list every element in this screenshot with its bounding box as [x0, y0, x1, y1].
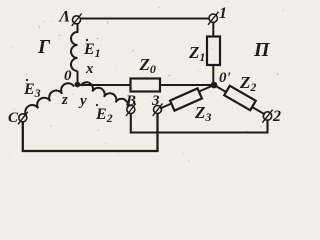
impedance Z1 [207, 37, 220, 66]
svg-text:Γ: Γ [37, 36, 51, 58]
impedance Z2 [224, 86, 255, 111]
svg-text:0': 0' [219, 70, 231, 86]
svg-text:B: B [125, 93, 136, 109]
neutral wire node0 to Z0 [81, 84, 131, 86]
winding E1 [71, 32, 77, 71]
wire 1 to Z1 [212, 22, 214, 37]
wire E1 to node 0 [77, 71, 79, 85]
svg-text:2: 2 [272, 108, 281, 125]
terminal C [18, 112, 28, 125]
svg-text:z: z [61, 92, 68, 108]
svg-text:Π: Π [253, 39, 271, 61]
impedance Z0 [131, 79, 161, 92]
terminal A [72, 14, 82, 27]
svg-text:C: C [8, 110, 19, 126]
wire Z1 to node 0' [212, 65, 214, 85]
wire A to 1 (top line) [81, 17, 210, 19]
terminal 1 [208, 12, 219, 25]
terminal B [126, 104, 136, 117]
terminal 2 [262, 110, 272, 123]
winding E2 (node 0 to B) [81, 80, 130, 108]
node 0' [211, 82, 218, 89]
impedance Z3 [170, 88, 202, 110]
wire B to 2 [131, 113, 268, 132]
paper speckle noise [9, 7, 284, 162]
neutral wire Z0 to node 0' [160, 84, 214, 86]
winding E3 (node 0 to C) [23, 81, 74, 116]
wire A to E1 [77, 24, 79, 33]
svg-text:Λ: Λ [59, 9, 71, 26]
node 0 [75, 82, 81, 88]
svg-text:x: x [85, 61, 94, 77]
svg-text:1: 1 [219, 5, 227, 22]
wire 0' to 2 [214, 85, 265, 115]
svg-text:y: y [78, 93, 87, 109]
wire 0' to 3 [160, 85, 214, 109]
svg-text:0: 0 [64, 68, 72, 84]
terminal 3 [153, 104, 163, 117]
svg-text:3: 3 [151, 93, 160, 109]
wire C to 3 (bottom) [23, 113, 158, 151]
